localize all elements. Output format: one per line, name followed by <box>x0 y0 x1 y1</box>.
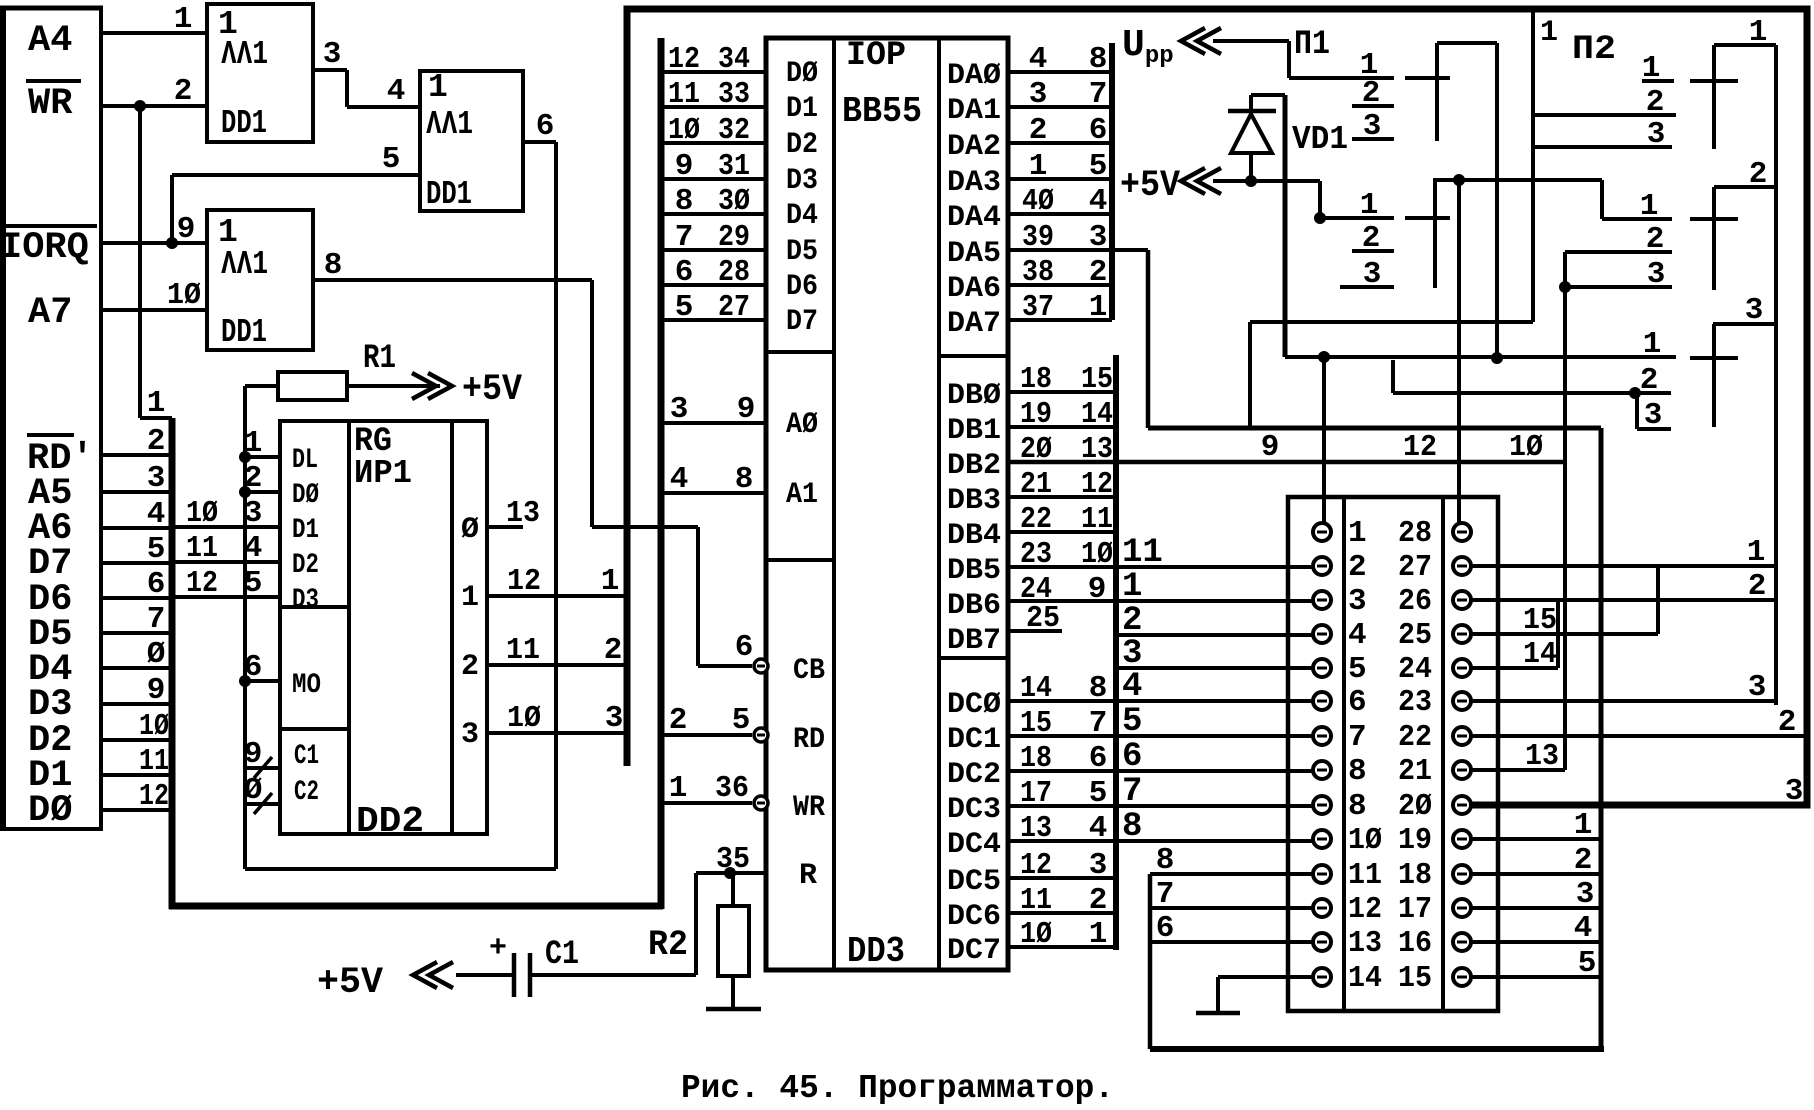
wire WR vertical down to register strobe row <box>138 106 142 418</box>
switch P2 section 3 contact 3 <box>1637 427 1671 431</box>
svg-text:19: 19 <box>1398 823 1432 858</box>
svg-text:3: 3 <box>1348 584 1367 619</box>
wire bus stub row 3 <box>101 490 172 494</box>
wire socket 22 <box>1471 734 1806 738</box>
svg-text:12: 12 <box>507 564 541 599</box>
svg-text:+5V: +5V <box>462 369 523 411</box>
wire to socket pin 1 <box>1322 357 1326 523</box>
svg-text:Upp: Upp <box>1122 24 1174 70</box>
wire A4 to DD1.1 pin 1 <box>101 31 207 35</box>
svg-text:13: 13 <box>1081 432 1113 467</box>
svg-text:1: 1 <box>147 386 166 421</box>
svg-text:5: 5 <box>675 290 694 325</box>
svg-text:3: 3 <box>1644 398 1663 433</box>
wire bus stub row 12 <box>101 808 172 812</box>
wire P2 wiper1 top <box>1714 43 1776 47</box>
svg-text:DD1: DD1 <box>221 105 267 142</box>
svg-text:3: 3 <box>1089 848 1108 883</box>
wire DA5 net vertical right <box>1599 428 1604 1049</box>
svg-text:6: 6 <box>536 109 555 144</box>
svg-text:DC2: DC2 <box>947 758 1001 792</box>
svg-text:4: 4 <box>244 531 263 566</box>
output pin 10 wire <box>487 731 627 735</box>
svg-text:3: 3 <box>1647 257 1666 292</box>
wire DD1.2 pin 5 horizontal <box>172 173 420 177</box>
wire DA5 net bus (upper) <box>1148 250 1601 428</box>
socket contact 19 <box>1453 830 1471 848</box>
wire socket 18 <box>1471 872 1601 876</box>
svg-text:12: 12 <box>668 42 700 77</box>
wire socket 13 <box>1150 940 1313 944</box>
socket contact 17 <box>1453 899 1471 917</box>
svg-text:DAØ: DAØ <box>947 59 1001 93</box>
svg-text:D1: D1 <box>292 515 319 546</box>
wire socket 16 <box>1471 940 1601 944</box>
svg-text:DC6: DC6 <box>947 900 1001 934</box>
switch P2 section 1 contact 3 <box>1533 145 1672 149</box>
svg-text:5: 5 <box>244 566 263 601</box>
svg-text:37: 37 <box>1022 290 1054 325</box>
switch P2 section 2 contact 2 <box>1565 250 1672 254</box>
wire socket 25 <box>1471 566 1658 634</box>
svg-text:DB5: DB5 <box>947 554 1001 588</box>
svg-text:DB7: DB7 <box>947 624 1001 658</box>
switch P1 section 1 contact 2 <box>1352 104 1394 108</box>
wire DC4 to socket <box>1008 839 1313 843</box>
wire DA2 stub <box>1008 141 1112 145</box>
socket contact 4 <box>1313 625 1331 643</box>
wire socket 15 <box>1471 975 1601 979</box>
wire P1 net to socket pin 28 <box>1457 180 1461 523</box>
wire bus stub row 7 <box>101 631 172 635</box>
svg-text:A4: A4 <box>28 20 72 62</box>
svg-text:1Ø: 1Ø <box>507 701 541 736</box>
svg-text:27: 27 <box>718 290 750 325</box>
svg-text:1: 1 <box>428 69 448 106</box>
svg-text:12: 12 <box>1081 467 1113 502</box>
Upp arrow <box>1181 28 1221 54</box>
svg-text:DA7: DA7 <box>947 307 1001 341</box>
socket contact 9 <box>1313 796 1331 814</box>
svg-text:ΛΛ1: ΛΛ1 <box>221 36 268 73</box>
socket contact 1 <box>1313 523 1331 541</box>
svg-text:2: 2 <box>1646 222 1665 257</box>
svg-text:1: 1 <box>1122 568 1142 606</box>
svg-text:Ø: Ø <box>244 773 263 808</box>
svg-text:2: 2 <box>1574 843 1593 878</box>
svg-text:27: 27 <box>1398 550 1432 585</box>
svg-text:2: 2 <box>1089 883 1108 918</box>
output pin 13 stub <box>487 525 523 529</box>
wire P2 wiper2 top <box>1714 185 1776 189</box>
svg-text:1: 1 <box>1089 917 1108 952</box>
svg-text:3: 3 <box>670 392 689 427</box>
svg-text:2: 2 <box>1778 705 1797 740</box>
svg-text:3: 3 <box>461 718 479 752</box>
svg-text:21: 21 <box>1020 467 1052 502</box>
socket contact 18 <box>1453 865 1471 883</box>
svg-text:1: 1 <box>461 581 479 615</box>
svg-text:7: 7 <box>1089 77 1108 112</box>
svg-text:1: 1 <box>174 2 193 37</box>
svg-text:IORQ: IORQ <box>0 227 89 269</box>
wire programming voltage line <box>1285 357 1738 358</box>
svg-text:36: 36 <box>715 771 749 806</box>
svg-text:8: 8 <box>1156 843 1175 878</box>
logic gate DD1.2 (OR element LL1) <box>420 69 523 213</box>
wire P2 common rail <box>1774 45 1778 705</box>
svg-text:2: 2 <box>1089 255 1108 290</box>
junction D0 <box>239 486 251 498</box>
svg-text:2: 2 <box>147 424 166 459</box>
svg-text:D1: D1 <box>786 92 818 126</box>
svg-text:22: 22 <box>1398 720 1432 755</box>
svg-text:DD1: DD1 <box>426 176 472 213</box>
socket contact 5 <box>1313 659 1331 677</box>
svg-text:11: 11 <box>139 744 169 779</box>
wire A1 stub <box>661 491 766 495</box>
socket contact 20 <box>1453 796 1471 814</box>
svg-text:15: 15 <box>1523 603 1557 638</box>
wire P1 common rail <box>1495 43 1499 358</box>
svg-text:7: 7 <box>147 602 166 637</box>
socket contact 23 <box>1453 692 1471 710</box>
svg-text:4: 4 <box>1089 184 1108 219</box>
svg-text:17: 17 <box>1398 892 1432 927</box>
svg-text:D2: D2 <box>786 128 818 162</box>
junction VD1 anode <box>1245 175 1257 187</box>
DB/DC bus rail <box>1113 355 1119 950</box>
svg-text:D6: D6 <box>786 270 818 304</box>
socket contact 3 <box>1313 591 1331 609</box>
svg-text:5: 5 <box>147 532 166 567</box>
svg-text:6: 6 <box>244 650 263 685</box>
svg-text:2: 2 <box>1646 85 1665 120</box>
svg-text:ΛΛ1: ΛΛ1 <box>221 246 268 283</box>
svg-text:8: 8 <box>1089 42 1108 77</box>
svg-text:1: 1 <box>1640 189 1659 224</box>
socket contact 16 <box>1453 933 1471 951</box>
svg-text:DD1: DD1 <box>221 314 267 351</box>
svg-text:DD3: DD3 <box>847 931 905 972</box>
svg-text:4: 4 <box>1348 618 1367 653</box>
svg-text:33: 33 <box>718 77 750 112</box>
svg-text:3: 3 <box>244 496 263 531</box>
DIP-28 programming socket <box>1288 497 1498 1011</box>
socket contact 11 <box>1313 865 1331 883</box>
svg-text:C1: C1 <box>545 936 579 974</box>
wire R1 to DD2 inputs vertical <box>243 386 247 869</box>
svg-text:BB55: BB55 <box>842 91 922 132</box>
wire D0 stub <box>661 70 766 74</box>
wire +5V line <box>1213 179 1320 183</box>
wire common bottom rail <box>1150 1046 1604 1052</box>
svg-text:21: 21 <box>1398 754 1432 789</box>
svg-text:2: 2 <box>1348 550 1367 585</box>
svg-text:C2: C2 <box>294 777 319 808</box>
svg-text:7: 7 <box>1156 877 1175 912</box>
wire DA3 stub <box>1008 177 1112 181</box>
svg-text:DCØ: DCØ <box>947 688 1001 722</box>
svg-text:3: 3 <box>323 37 342 72</box>
wire C2 to DD1.2 output <box>245 867 556 871</box>
wire D1 stub <box>661 105 766 109</box>
socket contact 7 <box>1313 727 1331 745</box>
+5V arrow (C1) <box>413 962 453 988</box>
svg-text:7: 7 <box>1122 773 1142 811</box>
svg-text:8: 8 <box>1348 789 1367 824</box>
wire +5V to P1.2 pole <box>1318 181 1322 218</box>
svg-text:C1: C1 <box>294 741 319 772</box>
svg-text:28: 28 <box>718 255 750 290</box>
wire bus stub row 2 <box>101 453 172 457</box>
svg-text:1: 1 <box>1089 290 1108 325</box>
svg-text:A7: A7 <box>28 292 72 334</box>
svg-text:12: 12 <box>1403 430 1437 465</box>
svg-text:DA1: DA1 <box>947 94 1001 128</box>
socket contact 21 <box>1453 761 1471 779</box>
svg-text:R: R <box>799 859 817 893</box>
junction P1 switch2 pole <box>1314 212 1326 224</box>
wire R net to C1 <box>694 873 698 975</box>
svg-text:1: 1 <box>1749 15 1768 50</box>
svg-text:11: 11 <box>1348 858 1382 893</box>
wire DC2 to socket <box>1008 769 1313 773</box>
svg-text:ΛΛ1: ΛΛ1 <box>426 106 473 143</box>
svg-text:19: 19 <box>1020 397 1052 432</box>
svg-text:4: 4 <box>1122 668 1142 706</box>
svg-text:3: 3 <box>1748 670 1767 705</box>
wire D3 stub <box>661 177 766 181</box>
pin CB circle <box>754 659 768 673</box>
svg-text:3: 3 <box>1363 257 1382 292</box>
svg-text:5: 5 <box>1089 776 1108 811</box>
svg-text:ИР1: ИР1 <box>354 455 412 492</box>
svg-text:Рис. 45. Программатор.: Рис. 45. Программатор. <box>681 1070 1114 1107</box>
wire D6 stub <box>661 283 766 287</box>
svg-text:1: 1 <box>1747 535 1766 570</box>
svg-text:39: 39 <box>1022 220 1054 255</box>
svg-text:RD: RD <box>793 723 825 757</box>
wire DB3 stub <box>1008 495 1116 499</box>
net label RD (active low) <box>27 435 94 480</box>
svg-text:DB2: DB2 <box>947 449 1001 483</box>
svg-text:18: 18 <box>1398 858 1432 893</box>
svg-text:CB: CB <box>793 654 825 688</box>
svg-text:D7: D7 <box>786 305 818 339</box>
wire DC1 to socket <box>1008 734 1313 738</box>
wire DB5 to socket pin 2 <box>1008 565 1313 569</box>
svg-text:D3: D3 <box>292 585 319 616</box>
svg-text:1Ø: 1Ø <box>1020 917 1052 952</box>
svg-text:9: 9 <box>675 149 694 184</box>
svg-text:DØ: DØ <box>28 790 72 832</box>
logic gate DD1.1 (OR element LL1) <box>207 4 313 142</box>
svg-text:R2: R2 <box>648 925 688 965</box>
svg-text:5: 5 <box>1089 149 1108 184</box>
svg-text:1: 1 <box>1348 516 1367 551</box>
svg-text:4: 4 <box>1029 42 1048 77</box>
junction P1 rail to Upp wire <box>1491 352 1503 364</box>
svg-text:18: 18 <box>1020 362 1052 397</box>
wire bus row 1 (WR strobe) <box>140 416 172 420</box>
svg-text:2: 2 <box>461 650 479 684</box>
wire bus stub row 6 <box>101 596 172 600</box>
svg-text:3: 3 <box>1089 220 1108 255</box>
svg-text:2: 2 <box>604 633 623 668</box>
svg-text:3: 3 <box>1745 293 1764 328</box>
net label WR (active low) <box>26 81 81 125</box>
svg-text:23: 23 <box>1020 537 1052 572</box>
svg-text:3: 3 <box>1576 877 1595 912</box>
output pin 11 wire <box>487 663 627 667</box>
register DD2 (RG IR1) <box>280 421 487 834</box>
wire bus stub row 5 <box>101 561 172 565</box>
wire D5 stub <box>661 248 766 252</box>
wire DA6 stub <box>1008 283 1112 287</box>
svg-text:8: 8 <box>324 248 343 283</box>
wire socket pin5 from rail <box>1116 666 1313 670</box>
socket contact 14 <box>1313 968 1331 986</box>
svg-text:DA3: DA3 <box>947 166 1001 200</box>
svg-text:6: 6 <box>147 567 166 602</box>
svg-text:6: 6 <box>675 255 694 290</box>
svg-text:7: 7 <box>1089 706 1108 741</box>
svg-text:13: 13 <box>1020 811 1052 846</box>
socket contact 8 <box>1313 761 1331 779</box>
wire socket 11 <box>1150 872 1313 876</box>
svg-text:DA5: DA5 <box>947 237 1001 271</box>
svg-text:DBØ: DBØ <box>947 379 1001 413</box>
wire bus stub row 0 <box>101 666 172 670</box>
svg-text:2: 2 <box>244 461 263 496</box>
wire A0 stub <box>661 421 766 425</box>
svg-text:2: 2 <box>174 74 193 109</box>
wire DC5 stub <box>1008 876 1116 880</box>
switch P1 section 2 contact 1 <box>1320 216 1450 220</box>
svg-text:38: 38 <box>1022 255 1054 290</box>
wire socket 19 <box>1471 837 1601 841</box>
svg-text:6: 6 <box>1122 738 1142 776</box>
svg-text:D3: D3 <box>786 164 818 198</box>
switch P2 section 1 contact 1 <box>1642 79 1738 83</box>
svg-text:6: 6 <box>1089 741 1108 776</box>
svg-text:2: 2 <box>1748 569 1767 604</box>
svg-text:9: 9 <box>147 673 166 708</box>
svg-text:D2: D2 <box>292 550 319 581</box>
ground symbol (socket) <box>1196 1011 1240 1016</box>
svg-text:11: 11 <box>1081 502 1113 537</box>
wire DC7 stub <box>1008 945 1116 949</box>
svg-text:1Ø: 1Ø <box>139 709 169 744</box>
pin D0 line <box>245 490 280 494</box>
svg-text:DB1: DB1 <box>947 414 1001 448</box>
switch P2 section 2 wiper bar <box>1712 187 1716 290</box>
svg-text:2: 2 <box>1029 113 1048 148</box>
svg-text:1Ø: 1Ø <box>167 278 201 313</box>
svg-text:WR: WR <box>28 83 73 125</box>
socket contact 13 <box>1313 933 1331 951</box>
svg-text:14: 14 <box>1020 671 1052 706</box>
pin RD circle <box>754 728 768 742</box>
wire DB4 stub <box>1008 530 1116 534</box>
switch P2 section 3 contact 1 cross <box>1690 356 1738 360</box>
wire DD1.2 output pin 6 <box>523 142 556 869</box>
svg-text:1: 1 <box>1642 51 1661 86</box>
svg-text:4: 4 <box>387 74 406 109</box>
wire socket 14 to ground <box>1218 977 1313 1013</box>
svg-text:2: 2 <box>1362 221 1381 256</box>
switch P1 section 1 wiper bar <box>1435 43 1439 141</box>
wire DA1 stub <box>1008 105 1112 109</box>
svg-text:5: 5 <box>1578 946 1597 981</box>
svg-text:DA2: DA2 <box>947 130 1001 164</box>
svg-text:12: 12 <box>1348 892 1382 927</box>
svg-text:29: 29 <box>718 220 750 255</box>
svg-text:5: 5 <box>382 142 401 177</box>
svg-text:11: 11 <box>506 633 540 668</box>
svg-text:1: 1 <box>601 564 620 599</box>
svg-text:4Ø: 4Ø <box>1022 184 1054 219</box>
pin C1 line with dynamic slash <box>245 757 280 778</box>
junction P2 sw2 contacts 2-3 <box>1559 253 1571 770</box>
wire DD1.3 output pin 8 <box>313 280 752 666</box>
wire bus to DD2 row 10 <box>172 525 280 529</box>
pin DL line <box>245 455 280 459</box>
svg-text:22: 22 <box>1020 502 1052 537</box>
junction R2 top <box>724 867 736 879</box>
socket contact 6 <box>1313 692 1331 710</box>
svg-text:16: 16 <box>1398 926 1432 961</box>
svg-text:2: 2 <box>1362 76 1381 111</box>
wire D2 stub <box>661 141 766 145</box>
switch P1 section 2 wiper bar <box>1433 178 1437 288</box>
svg-text:4: 4 <box>147 497 166 532</box>
svg-text:5: 5 <box>732 703 751 738</box>
switch P1 section 2 contact 2 <box>1352 249 1394 253</box>
wire R stub <box>696 871 766 875</box>
svg-text:8: 8 <box>1348 754 1367 789</box>
svg-text:Ø: Ø <box>147 637 166 672</box>
svg-text:3: 3 <box>147 461 166 496</box>
junction MO <box>239 675 251 687</box>
svg-text:DC7: DC7 <box>947 934 1001 968</box>
svg-text:1: 1 <box>1360 188 1379 223</box>
svg-text:3Ø: 3Ø <box>718 184 750 219</box>
svg-text:1: 1 <box>1029 149 1048 184</box>
wire VD1 cathode down <box>1283 95 1288 357</box>
svg-text:9: 9 <box>244 737 263 772</box>
svg-text:D4: D4 <box>786 199 818 233</box>
pin C2 line with dynamic slash <box>245 793 280 814</box>
ground symbol (R2) <box>706 1007 761 1012</box>
socket contact 10 <box>1313 830 1331 848</box>
wire socket 26 <box>1471 598 1776 602</box>
wire A7 row to DD1.3 pin 10 <box>101 308 207 312</box>
svg-text:15: 15 <box>1081 362 1113 397</box>
corner P2 sw2 contact2 <box>1563 252 1567 253</box>
svg-text:14: 14 <box>1348 961 1382 996</box>
+5V arrow <box>1181 168 1221 194</box>
svg-text:5: 5 <box>1348 652 1367 687</box>
svg-text:11: 11 <box>668 77 700 112</box>
Upp rail (DA common) <box>1109 43 1115 320</box>
wire DB7 stub <box>1008 629 1062 633</box>
svg-text:31: 31 <box>718 149 750 184</box>
svg-text:5: 5 <box>1122 703 1142 741</box>
svg-text:DØ: DØ <box>786 57 818 91</box>
svg-text:2: 2 <box>669 703 688 738</box>
